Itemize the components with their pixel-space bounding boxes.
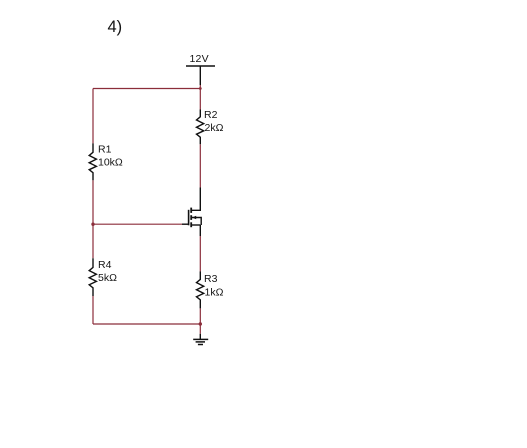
svg-text:1kΩ: 1kΩ (205, 287, 224, 299)
svg-text:R3: R3 (204, 273, 218, 285)
svg-text:12V: 12V (190, 53, 209, 65)
svg-text:2kΩ: 2kΩ (205, 122, 224, 134)
svg-text:4): 4) (108, 18, 123, 36)
svg-text:R2: R2 (204, 109, 218, 121)
svg-text:5kΩ: 5kΩ (98, 272, 117, 284)
svg-text:R4: R4 (98, 259, 112, 271)
svg-text:R1: R1 (98, 143, 112, 155)
svg-text:10kΩ: 10kΩ (98, 156, 123, 168)
